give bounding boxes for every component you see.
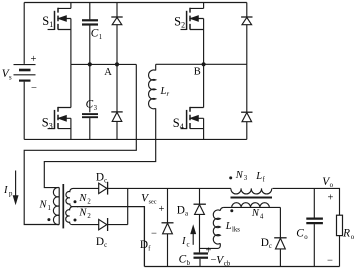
- svg-text:2: 2: [87, 199, 91, 206]
- svg-text:p: p: [9, 191, 13, 198]
- label Vs: [2, 68, 12, 81]
- label S4: [173, 116, 184, 131]
- svg-text:r: r: [167, 91, 170, 98]
- capacitor Co: [306, 188, 323, 266]
- svg-text:A: A: [104, 67, 112, 78]
- transformer secondary N2 upper: [66, 188, 99, 206]
- svg-text:D: D: [96, 172, 104, 184]
- svg-text:+: +: [31, 54, 37, 65]
- svg-text:D: D: [261, 237, 269, 249]
- svg-text:N: N: [78, 193, 87, 204]
- resistor Ro: [337, 215, 343, 266]
- label Dc output: [261, 237, 272, 250]
- svg-text:1: 1: [99, 34, 102, 41]
- svg-text:N: N: [78, 208, 87, 219]
- svg-text:s: s: [9, 74, 12, 81]
- label Lbias: [225, 221, 240, 234]
- diode D2 upper-right clamp: [241, 3, 252, 65]
- inductor Lbias: [200, 207, 224, 248]
- svg-text:c: c: [104, 178, 107, 185]
- label Ip: [3, 185, 13, 198]
- svg-text:C: C: [86, 99, 94, 111]
- voltage source Vs: [14, 3, 36, 140]
- label Dc lower: [96, 236, 107, 249]
- svg-text:1: 1: [48, 205, 51, 212]
- transistor S1: [48, 3, 71, 65]
- svg-text:C: C: [296, 228, 304, 240]
- svg-text:3: 3: [49, 121, 53, 130]
- diode Df freewheel: [162, 188, 174, 266]
- svg-text:b: b: [187, 260, 191, 267]
- svg-text:S: S: [42, 115, 49, 129]
- transistor S2: [181, 3, 204, 65]
- svg-text:c: c: [187, 242, 190, 249]
- label Dc upper: [96, 172, 107, 185]
- label C3: [86, 99, 98, 112]
- capacitor Cb: [194, 254, 209, 267]
- svg-text:D: D: [140, 239, 148, 251]
- polarity dot N2 lower: [74, 219, 77, 222]
- label N2 upper: [78, 193, 91, 206]
- svg-text:+: +: [159, 204, 165, 215]
- node A junction dots: [88, 62, 119, 66]
- current arrow Ip: [13, 171, 17, 204]
- diode Dc upper rectifier: [99, 182, 231, 195]
- wire node A horizontal: [71, 63, 136, 65]
- svg-text:−: −: [31, 83, 37, 94]
- node B junction dot: [202, 62, 206, 66]
- wire output top: [273, 188, 340, 215]
- label N1: [39, 200, 51, 213]
- svg-text:a: a: [185, 211, 188, 218]
- svg-text:sec: sec: [149, 198, 157, 205]
- svg-text:2: 2: [181, 21, 185, 30]
- polarity dot N2 upper: [74, 200, 77, 203]
- polarity dot N1: [47, 218, 50, 221]
- diode Dc lower rectifier: [99, 218, 128, 231]
- svg-text:L: L: [225, 221, 232, 232]
- svg-text:N: N: [39, 200, 48, 211]
- label S2: [174, 15, 185, 30]
- label Cb: [179, 254, 191, 267]
- svg-text:4: 4: [260, 213, 264, 220]
- svg-text:R: R: [342, 228, 350, 240]
- label S1: [42, 14, 53, 29]
- capacitor C1: [82, 3, 98, 65]
- coupled inductor N4 winding: [224, 203, 281, 208]
- svg-text:f: f: [263, 176, 266, 183]
- transistor S4: [181, 64, 204, 139]
- svg-text:L: L: [255, 171, 262, 182]
- wire bottom rail: [24, 138, 247, 140]
- svg-text:f: f: [148, 245, 151, 252]
- label Lf: [255, 171, 265, 183]
- svg-text:cb: cb: [224, 261, 231, 268]
- label Vo: [322, 176, 333, 189]
- svg-text:2: 2: [87, 213, 91, 220]
- label Lr: [160, 86, 170, 98]
- svg-text:1: 1: [49, 20, 53, 29]
- svg-text:I: I: [3, 185, 8, 196]
- transformer primary N1: [53, 187, 59, 224]
- polarity dot N3: [229, 176, 232, 179]
- svg-text:+: +: [328, 193, 334, 204]
- svg-text:o: o: [351, 234, 355, 241]
- svg-text:L: L: [160, 86, 167, 97]
- svg-text:S: S: [173, 116, 180, 130]
- diode Da auxiliary: [194, 188, 206, 252]
- svg-text:B: B: [194, 67, 201, 78]
- svg-text:S: S: [42, 14, 49, 28]
- svg-text:D: D: [96, 236, 104, 248]
- label Vcb: [211, 254, 231, 267]
- svg-text:3: 3: [94, 105, 98, 112]
- svg-text:N: N: [251, 208, 260, 219]
- svg-text:S: S: [174, 15, 181, 29]
- label Df: [140, 239, 151, 253]
- svg-text:I: I: [181, 236, 186, 247]
- current arrow Ic: [191, 226, 195, 245]
- Lf core bar: [231, 197, 273, 199]
- wire lower cathode to top rail: [127, 188, 129, 224]
- wire top rail: [24, 2, 247, 4]
- svg-text:C: C: [91, 28, 99, 40]
- label Vsec: [141, 192, 157, 205]
- svg-text:3: 3: [244, 175, 248, 182]
- label N2 lower: [78, 208, 91, 221]
- diode D1 upper-left clamp: [111, 3, 122, 65]
- svg-text:4: 4: [180, 122, 184, 131]
- coupled inductor N3 Lf winding scallops: [231, 188, 272, 194]
- label C1: [91, 28, 102, 41]
- label Ic: [181, 236, 190, 249]
- label N4: [251, 208, 264, 221]
- svg-text:c: c: [269, 243, 272, 250]
- svg-text:D: D: [177, 205, 185, 217]
- wire output bottom rail: [144, 266, 339, 268]
- capacitor C3: [82, 64, 98, 139]
- label Co: [296, 228, 308, 241]
- svg-text:c: c: [104, 242, 107, 249]
- diode D4 lower-right clamp: [241, 64, 252, 139]
- svg-text:C: C: [179, 254, 187, 266]
- svg-text:−: −: [151, 229, 157, 240]
- inductor Lr: [44, 64, 155, 187]
- label Da: [177, 205, 188, 218]
- transistor S3: [48, 64, 71, 139]
- transformer secondary N2 lower: [66, 207, 99, 225]
- wire center tap to ground rail: [77, 207, 144, 267]
- label S3: [42, 115, 53, 130]
- polarity dot N4: [230, 209, 233, 212]
- svg-text:o: o: [304, 234, 308, 241]
- wire node B horizontal: [156, 63, 247, 65]
- diode Dc output: [274, 207, 286, 266]
- svg-text:N: N: [235, 170, 244, 181]
- label N3: [235, 170, 248, 182]
- svg-text:o: o: [330, 182, 334, 189]
- svg-text:lks: lks: [232, 227, 240, 234]
- transformer core: [62, 184, 64, 228]
- diode D3 lower-left clamp: [111, 64, 122, 139]
- svg-text:−: −: [327, 256, 333, 267]
- label Ro: [342, 228, 355, 241]
- wire A to primary bottom: [24, 64, 136, 224]
